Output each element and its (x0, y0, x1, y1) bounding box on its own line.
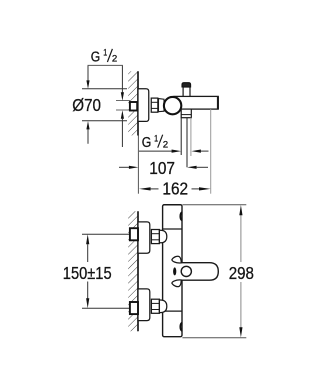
spout bottom ear (172, 280, 181, 287)
nipple right edge extension line (190, 118, 192, 156)
flange bottom extension line (82, 120, 127, 122)
107 dimension row (119, 166, 129, 168)
svg-text:G: G (91, 49, 101, 66)
top union hex nut (151, 230, 159, 244)
298 dimension line (240, 215, 242, 262)
faucet body (side) (174, 96, 218, 109)
Ø70 dimension line (87, 65, 89, 81)
top union cone bump (159, 230, 166, 243)
spout top ear (172, 256, 181, 263)
temperature knob circle (181, 266, 191, 276)
wall face extension line (to dimension rows) (137, 136, 139, 194)
svg-text:G: G (142, 134, 152, 151)
150±15 dimension line lower part (87, 282, 89, 299)
162 dimension row (139, 187, 151, 190)
bath spout (front) (181, 263, 218, 281)
G1/2 label (outlet) (142, 133, 168, 151)
bottom union hex nut (151, 299, 159, 313)
298 bottom extension line (182, 337, 246, 339)
svg-text:Ø70: Ø70 (72, 95, 101, 115)
black dot marker (173, 267, 176, 275)
top union escutcheon (138, 222, 150, 253)
150±15 dimension line upper part (87, 244, 89, 262)
bottom union escutcheon (138, 289, 150, 321)
body joint line bottom (163, 310, 182, 312)
svg-text:2: 2 (112, 54, 117, 65)
outlet pipe lines below nipple (180, 118, 182, 155)
svg-text:162: 162 (162, 179, 188, 199)
svg-text:2: 2 (163, 139, 168, 150)
wall face line top view (137, 71, 139, 135)
escutcheon flange (side) (138, 89, 149, 122)
flange top extension line (82, 88, 127, 90)
faucet body (front) (163, 205, 182, 337)
wall nut (130, 102, 137, 111)
bracket under G1/2 label (88, 64, 123, 66)
union hex nut (side) (151, 98, 158, 112)
298 top extension line (182, 204, 246, 206)
wall hatch top view (128, 71, 138, 135)
svg-text:150±15: 150±15 (63, 263, 112, 283)
150 bottom extension line (82, 307, 130, 309)
G1/2 outlet dimension row (139, 150, 172, 152)
body joint line top (163, 228, 182, 230)
svg-text:298: 298 (229, 263, 254, 283)
bottom union wall nut (130, 302, 138, 314)
supply pipe tail (116, 100, 130, 102)
lower screw crescent (180, 323, 182, 331)
svg-text:107: 107 (149, 158, 175, 178)
extension line from body front (210, 109, 212, 194)
G1/2 top dimension line (121, 65, 123, 92)
G1/2 label (top) (91, 47, 118, 65)
body front edge (thick) (217, 96, 219, 109)
wall face line front view (137, 211, 139, 331)
diverter knob cap (182, 83, 191, 87)
top union wall nut (130, 228, 138, 240)
wall hatch front view (128, 211, 138, 331)
thermostat handle circle (side) (164, 97, 181, 114)
shower outlet nipple (181, 109, 191, 118)
svg-text:1: 1 (103, 47, 107, 58)
diverter knob stem (183, 87, 190, 96)
150 top extension line (82, 233, 130, 235)
union cone connector (159, 99, 165, 112)
upper screw crescent (180, 212, 182, 220)
svg-text:1: 1 (154, 133, 158, 144)
bottom union cone bump (159, 300, 166, 313)
